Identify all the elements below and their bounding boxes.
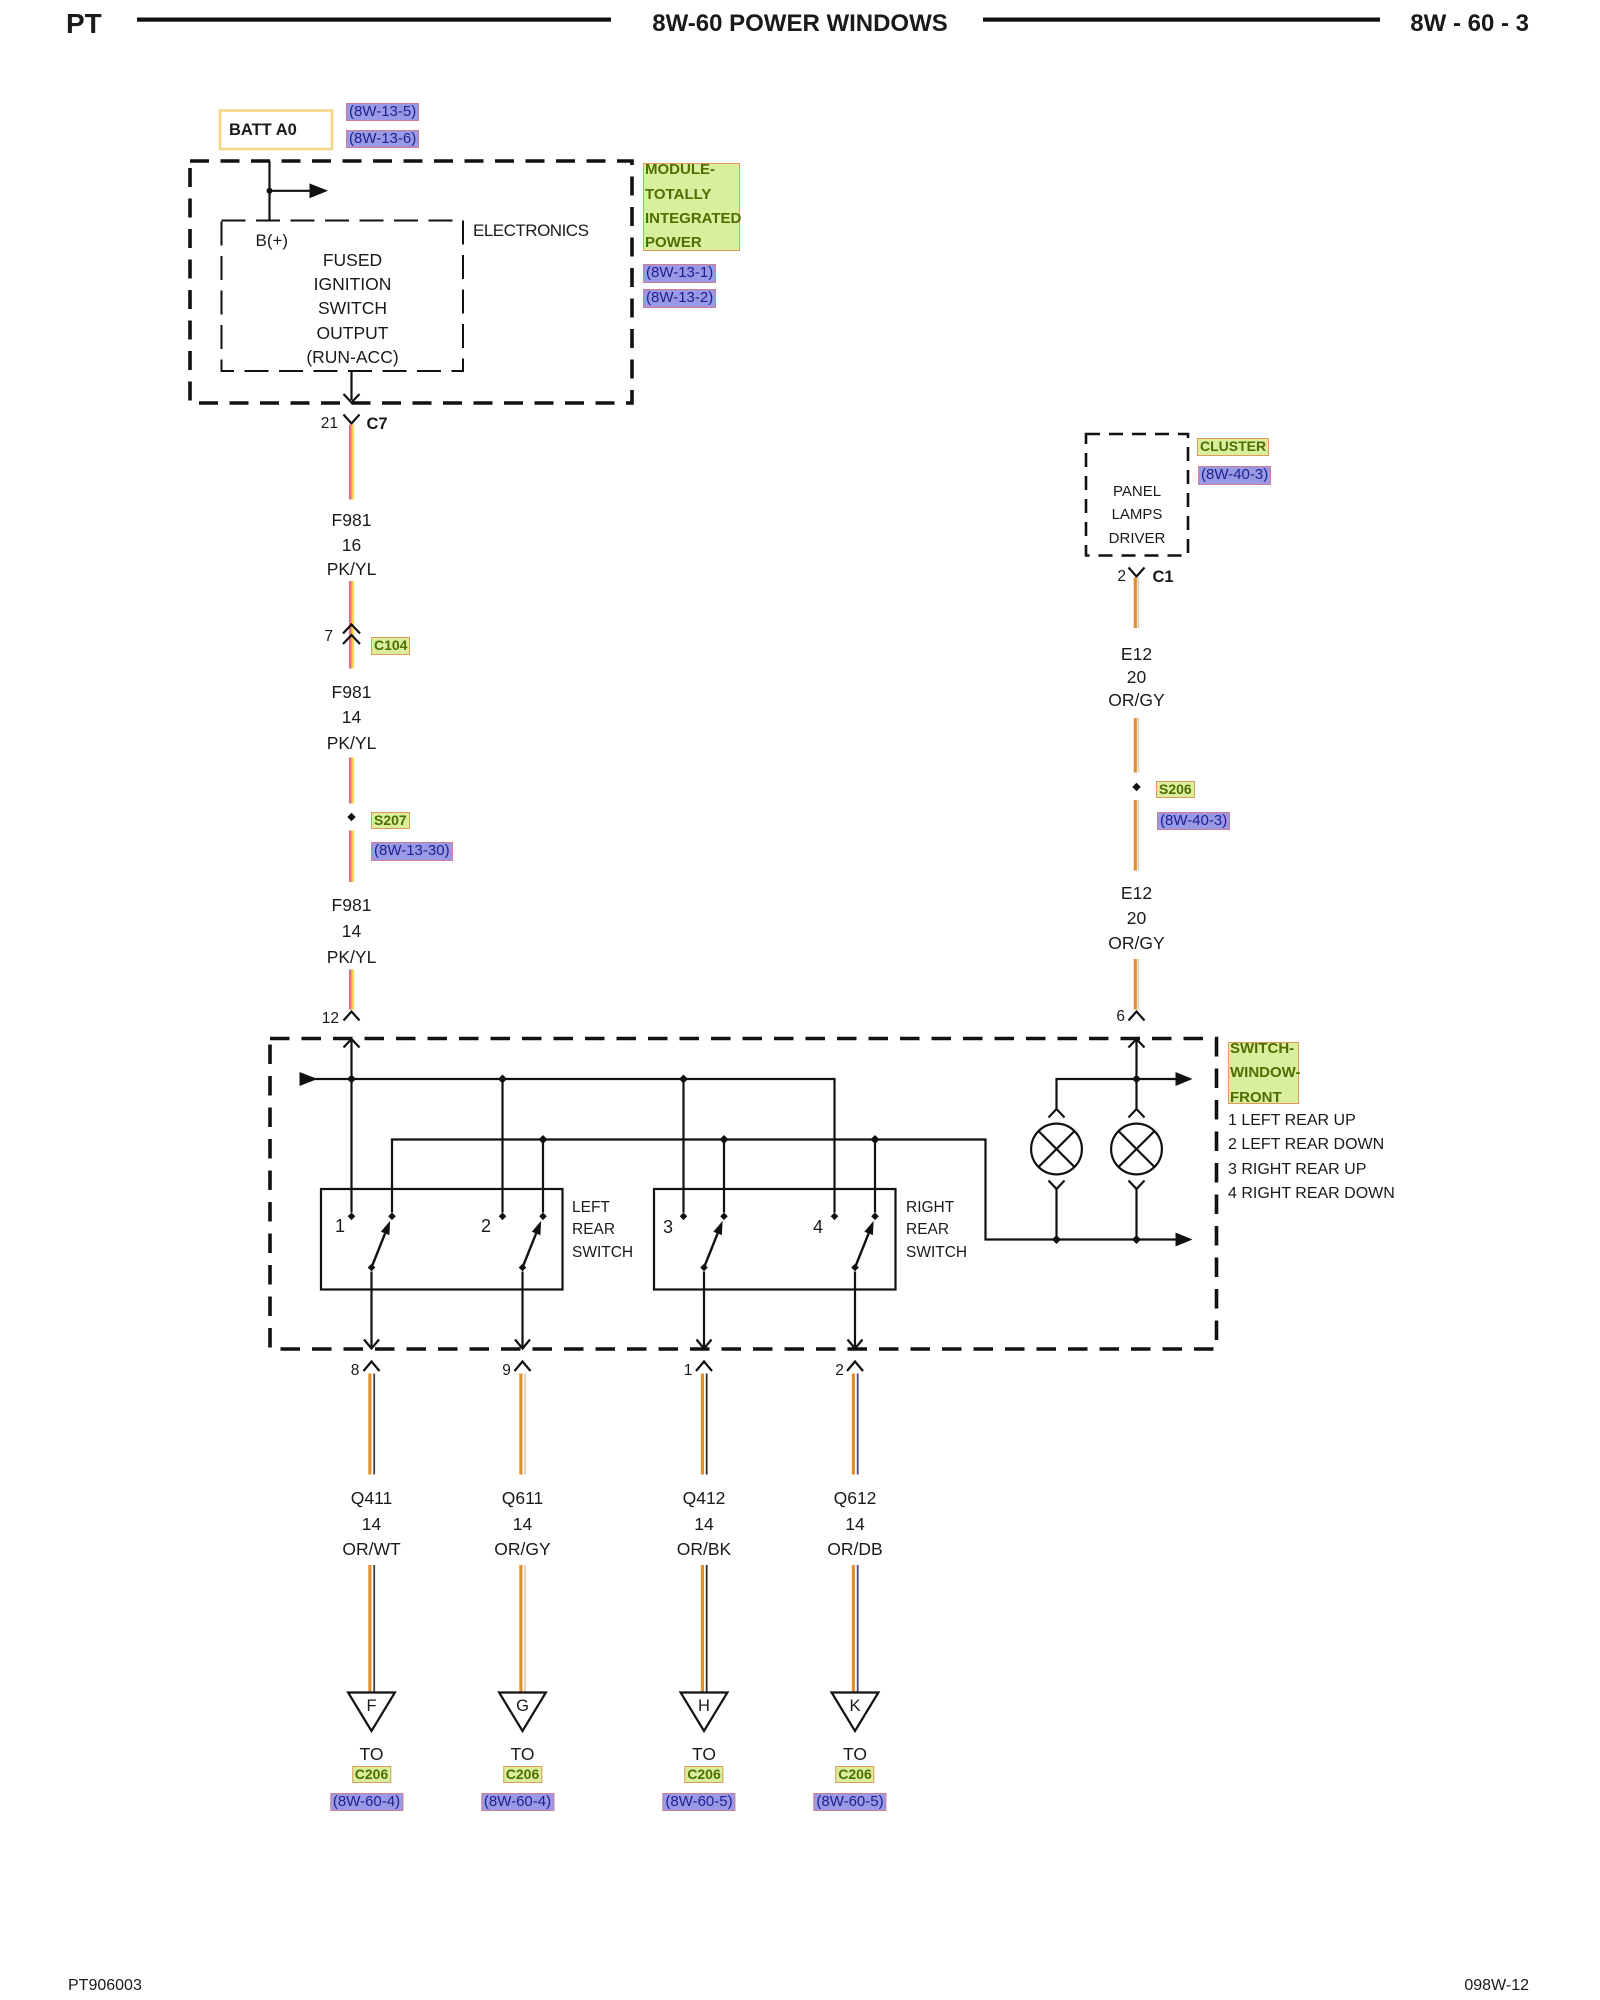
wire Q611 14 OR/GY segment 1 (orange) [519,1374,522,1475]
wire label F981 below splice [332,893,372,917]
connector C1 label [1153,565,1174,589]
wire from BATT A0 into TIPM [268,161,270,220]
label B(+) [256,229,289,253]
splice label S207 [371,812,410,830]
wire label PK/YL [327,731,377,755]
illumination return exit arrowhead (right) [1176,1233,1193,1247]
label TO (F) [360,1742,384,1766]
feed drop to pole 2 [501,1079,503,1213]
wire label 14 (Q611) [513,1512,532,1536]
wire F981 segment F to pin 12 (pink) [349,970,352,1010]
link 8W-40-3 (splice) [1157,812,1230,831]
pole 3 right contact [720,1213,728,1221]
pin 7 label [324,625,333,649]
wire label OR/GY (Q611) [494,1537,550,1561]
output line from fused ignition box to C7 [350,372,352,401]
wire F981 segment B through C104 (pink) [349,581,352,669]
pin 6 entry arrowhead inside switch [1129,1039,1145,1048]
connector label C206 (G) [503,1766,542,1784]
wire E12 segment B above S206 (orange) [1134,718,1137,773]
pole 4 switch blade [855,1233,869,1267]
in-line connector C104 upper chevron [343,625,360,634]
wire E12 segment D to pin 6 (gray tracer) [1137,959,1139,1010]
label FUSED [323,248,382,272]
return riser pole 3 [723,1140,725,1213]
pole 3 blade pivot [700,1264,708,1272]
splice S206 node [1132,783,1140,791]
pole 3 terminal label [663,1215,673,1239]
connector letter G [516,1694,529,1718]
header rule left [137,18,611,22]
front window switch dashed box [270,1039,1217,1350]
splice label S206 [1156,781,1195,799]
wire E12 20 OR/GY segment A (orange) [1134,578,1137,629]
pole 1 terminal label [335,1214,345,1238]
pole 3 exit arrowhead [697,1340,712,1349]
wire label Q612 [834,1486,877,1510]
label IGNITION [314,272,392,296]
link 8W-60-4 (F) [330,1793,403,1812]
pole 3 left contact [680,1213,688,1221]
pin 6 chevron of switch connector [1129,1012,1145,1021]
pole 2 output wire to pin 9 [521,1272,523,1349]
pin 8 chevron [364,1362,380,1372]
label SWITCH [318,296,387,320]
wire Q612 segment 2 (orange) [852,1565,855,1694]
link 8W-13-1 [643,264,716,283]
in-line connector C104 lower chevron [343,635,360,644]
branch arrow right from battery feed [270,190,312,192]
wire Q412 segment 2 (orange) [701,1565,704,1694]
wire label 20 [1127,665,1146,689]
wire label 20 [1127,906,1146,930]
pole 4 exit arrowhead [848,1340,863,1349]
pin 6 label [1116,1005,1125,1029]
junction node lamp2 on return bus [1132,1235,1141,1244]
wire label OR/DB [827,1537,882,1561]
pole 2 terminal label [481,1214,491,1238]
connector C1 symbol [1129,568,1145,577]
wire F981 16 PK/YL segment A (pink) [349,425,352,500]
header rule right [983,18,1380,22]
link 8W-60-4 (G) [481,1793,554,1812]
wire E12 segment B above S206 (gray tracer) [1137,718,1139,773]
illumination lamp 2 [1111,1124,1162,1175]
illumination return bus line2 [392,1140,1179,1240]
pin 21 label [321,412,338,436]
label DRIVER [1109,527,1166,551]
pin 1 chevron [696,1362,712,1372]
label BATT A0 [229,118,297,142]
link 8W-60-5 (K) [813,1793,886,1812]
pole 4 right contact [871,1213,879,1221]
link 8W-40-3 (cluster) [1198,466,1271,485]
wire Q412 14 OR/BK segment 1 (orange) [701,1374,704,1475]
wire Q611 segment 1 (gray tracer) [524,1374,526,1475]
wire E12 segment D to pin 6 (orange) [1134,959,1137,1010]
wire Q412 segment 1 (black tracer) [706,1374,708,1475]
pole 4 terminal label [813,1215,823,1239]
wire F981 16 PK/YL segment A (yellow tracer) [351,425,354,500]
pole 2 switch blade [523,1233,537,1267]
arrowhead down at TIPM edge [344,394,360,403]
pin 9 chevron [515,1362,531,1372]
legend line 1 [1228,1109,1356,1133]
off-page connector K [832,1693,879,1732]
header label PT [66,12,102,36]
junction node on battery feed [267,188,273,194]
wire F981 segment E below S207 (yellow tracer) [351,831,354,883]
wire Q411 segment 2 (white tracer) [373,1565,375,1694]
lamp 1 top connector chevron [1049,1109,1065,1118]
pin 9 label [502,1359,511,1383]
lamp 2 bottom stub [1135,1189,1137,1240]
label TO (H) [692,1742,716,1766]
link 8W-60-5 (H) [662,1793,735,1812]
legend line 2 [1228,1133,1384,1157]
wire pin12 vertical to switch pole 1 [350,1039,352,1213]
wire label OR/BK [677,1537,731,1561]
module name highlight box [643,163,740,251]
cluster label CLUSTER [1197,438,1269,456]
pole 1 output wire to pin 8 [370,1272,372,1349]
wire label E12 [1121,642,1152,666]
switch name text SWITCH-WINDOW-FRONT [1230,1037,1301,1110]
connector C7 label [367,412,388,436]
splice S207 node [347,813,355,821]
wire label 14 (Q411) [362,1512,381,1536]
wire label Q411 [351,1486,393,1510]
link 8W-13-5 [346,103,419,122]
switch name highlight box [1228,1042,1299,1104]
return riser pole 4 [874,1140,876,1213]
pole 2 exit arrowhead [515,1340,530,1349]
pole 4 output wire to pin 2 [854,1272,856,1349]
connector letter H [698,1694,710,1718]
feed drop to pole 3 [682,1079,684,1213]
wire Q411 segment 2 (orange) [368,1565,371,1694]
pin 2 label (C1) [1117,565,1126,589]
wire Q611 segment 2 (orange) [519,1565,522,1694]
lamp 2 bottom connector chevron [1129,1181,1145,1190]
pole 1 blade pivot [368,1264,376,1272]
connector letter F [366,1694,376,1718]
pin 1 label [684,1359,693,1383]
header title [652,12,948,36]
wire F981 segment B through C104 (yellow tracer) [351,581,354,669]
pin 12 label [322,1007,339,1031]
connector label C206 (K) [835,1766,874,1784]
pin 8 label [351,1359,360,1383]
junction node line1 at pole2 [498,1075,507,1084]
pin 2 label [835,1359,844,1383]
pin 12 chevron of switch connector [344,1012,360,1021]
cluster panel lamps driver dashed box [1086,434,1188,556]
off-page connector F [348,1693,395,1732]
label REAR (right switch) [906,1218,949,1242]
battery feed bus entry arrow (left) [300,1072,318,1086]
link 8W-13-6 [346,130,419,149]
label OUTPUT [317,321,389,345]
wire E12 segment C below S206 (orange) [1134,800,1137,871]
battery feed box BATT A0 [220,111,332,150]
wire label 14 (Q412) [694,1512,713,1536]
wire Q612 14 OR/DB segment 1 (orange) [852,1374,855,1475]
wire label 14 (Q612) [845,1512,864,1536]
junction node line1 at pole1 [347,1075,356,1084]
wire Q612 segment 1 (dark blue tracer) [857,1374,859,1475]
footer sheet number [1464,1974,1529,1998]
label (RUN-ACC) [306,345,398,369]
module name text MODULE-TOTALLY INTEGRATED POWER [645,158,741,255]
wire label PK/YL [327,557,377,581]
wire label F981 (16ga) [332,508,372,532]
pole 2 blade pivot [519,1264,527,1272]
wire label OR/GY [1108,931,1164,955]
wire label F981 (14ga) [332,680,372,704]
footer drawing number [68,1974,142,1998]
wire label Q611 [502,1486,544,1510]
fused ignition switch output inner dashed box [222,221,464,372]
pin 12 entry arrowhead inside switch [344,1039,360,1048]
wire label OR/WT [342,1537,400,1561]
return riser pole 2 [542,1140,544,1213]
label RIGHT [906,1196,954,1220]
wire label OR/GY [1108,688,1164,712]
wire label 16 [342,533,361,557]
junction node line2 at pole4 [871,1135,880,1144]
pole 1 switch blade [372,1233,386,1267]
label TO (G) [511,1742,535,1766]
connector C7 symbol [344,415,360,424]
wire F981 14 PK/YL segment D (pink) [349,758,352,804]
illumination lamp 1 [1031,1124,1082,1175]
off-page connector H [681,1693,728,1732]
label LEFT [572,1196,610,1220]
lamp 1 bottom connector chevron [1049,1181,1065,1190]
connector label C206 (H) [684,1766,723,1784]
pole 3 output wire to pin 1 [703,1272,705,1349]
pole 2 right contact [539,1213,547,1221]
pole 2 left contact [499,1213,507,1221]
wire F981 segment F to pin 12 (yellow tracer) [351,970,354,1010]
pole 1 left contact [348,1213,356,1221]
right rear switch box [654,1189,896,1290]
pole 3 switch blade [704,1233,718,1267]
wire label E12 below splice [1121,881,1152,905]
wire F981 14 PK/YL segment D (yellow tracer) [351,758,354,804]
off-page connector G [499,1693,546,1732]
wire Q411 segment 1 (white tracer) [373,1374,375,1475]
junction node line2 at pole2 [539,1135,548,1144]
wire label Q412 [683,1486,726,1510]
left rear switch box [321,1189,563,1290]
label REAR (left switch) [572,1218,615,1242]
pole 1 right contact [388,1213,396,1221]
label ELECTRONICS [473,219,588,243]
pin 2 chevron [847,1362,863,1372]
wire label PK/YL [327,945,377,969]
wire E12 segment A (gray tracer) [1137,578,1139,629]
pole 4 left contact [831,1213,839,1221]
wire Q412 segment 2 (black tracer) [706,1565,708,1694]
junction node line2 at pole3 [720,1135,729,1144]
header page number [1410,12,1529,36]
junction node line1 at pole3 [679,1075,688,1084]
label LAMPS [1112,503,1163,527]
wire Q411 14 OR/WT segment 1 (orange) [368,1374,371,1475]
lamp 2 top connector chevron [1129,1109,1145,1118]
wire label 14 [342,705,361,729]
wire label 14 [342,919,361,943]
wire Q612 segment 2 (dark blue tracer) [857,1565,859,1694]
legend line 3 [1228,1158,1366,1182]
pole 1 exit arrowhead [364,1340,379,1349]
link 8W-13-2 [643,289,716,308]
label TO (K) [843,1742,867,1766]
label SWITCH (right switch) [906,1241,967,1265]
connector label C104 [371,637,410,655]
link 8W-13-30 [371,842,453,861]
module TIPM outer dashed box [190,161,632,403]
label SWITCH (left switch) [572,1241,633,1265]
connector letter K [849,1694,860,1718]
wire Q611 segment 2 (gray tracer) [524,1565,526,1694]
junction node lamp1 on return bus [1052,1235,1061,1244]
label PANEL [1113,480,1161,504]
wire pin6 vertical to lamp 2 [1135,1039,1137,1109]
wire E12 segment C below S206 (gray tracer) [1137,800,1139,871]
connector label C206 (F) [352,1766,391,1784]
lamp 1 bottom stub [1055,1189,1057,1240]
lamp feed exit arrowhead (right) [1176,1072,1193,1086]
panel lamps feed line from pin 6 [1057,1079,1180,1109]
wire F981 segment E below S207 (pink) [349,831,352,883]
battery feed bus line1 [310,1079,835,1213]
pole 4 blade pivot [851,1264,859,1272]
junction node lamp feed at pin6 [1132,1075,1141,1084]
legend line 4 [1228,1182,1395,1206]
